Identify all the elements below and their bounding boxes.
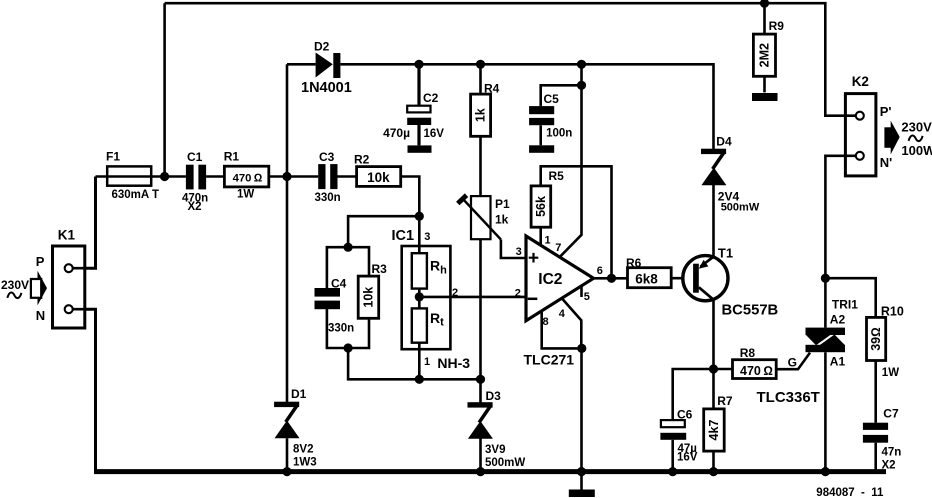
svg-text:1W: 1W [237,189,254,201]
capacitor C4 [315,288,341,309]
capacitor C3 [318,164,337,189]
svg-text:R5: R5 [549,169,565,183]
resistor R7 [704,409,725,451]
wire D3 leads [479,379,482,471]
svg-text:NH-3: NH-3 [437,355,470,371]
wire K2 N' riser [825,156,855,278]
svg-text:100W: 100W [901,143,932,158]
svg-text:470µ: 470µ [383,126,410,140]
svg-text:8V2: 8V2 [293,444,313,456]
svg-text:3V9: 3V9 [485,444,505,456]
wire C4 R3 top rail [327,247,369,288]
node F1 C1 [160,172,169,181]
svg-text:47n: 47n [882,447,902,459]
node bottom D3 [476,467,485,476]
svg-text:1: 1 [545,235,551,247]
node bottom ground [577,467,586,476]
node op-amp output [607,274,616,283]
wire op-amp pin 5 stub [580,286,583,297]
svg-text:2: 2 [452,287,458,299]
svg-text:P1: P1 [495,197,510,211]
svg-text:1W: 1W [882,367,899,379]
resistor R2 [357,167,401,187]
svg-text:470 Ω: 470 Ω [740,364,773,378]
svg-text:2: 2 [515,287,521,299]
zener diode D4 [701,149,726,186]
svg-text:TLC336T: TLC336T [757,389,820,406]
wire triac A2 [824,278,827,327]
node reference row D3 [476,375,485,384]
svg-text:K2: K2 [852,74,869,89]
capacitor C2 electrolytic [407,106,431,125]
mains arrow at K1 [31,271,47,306]
svg-text:C5: C5 [544,92,560,106]
svg-text:R1: R1 [224,150,240,164]
ground below R9 [752,93,778,101]
wire K1 P pin to mains row [73,177,96,269]
wire node to R8 [714,368,733,371]
wire R10 to C7 [874,361,877,472]
svg-text:C7: C7 [883,406,899,420]
svg-text:X2: X2 [188,201,202,213]
svg-text:R7: R7 [717,394,733,408]
triac TRI1 [806,328,846,353]
svg-text:330n: 330n [315,192,341,204]
node pin4 pin8 [577,344,586,353]
svg-text:TLC271: TLC271 [524,352,575,368]
wire bottom reference row [348,348,480,379]
svg-text:R10: R10 [881,305,904,319]
resistor R8 [733,360,777,379]
svg-text:56k: 56k [534,196,548,217]
svg-text:A2: A2 [830,312,846,326]
wire D2 branch riser x287 [286,64,289,471]
fuse F1 [107,166,151,185]
svg-text:G: G [788,356,797,370]
wire left riser from mains row to top rail [163,3,166,176]
svg-text:470 Ω: 470 Ω [233,173,263,185]
wire op-amp pin 8 [542,311,582,349]
svg-text:39Ω: 39Ω [869,327,883,351]
svg-text:N: N [36,308,45,323]
diode D2 [316,53,341,79]
node bottom D1 [282,467,291,476]
node R2 IC1 [415,212,424,221]
svg-text:100n: 100n [546,127,572,139]
wire K1 N pin to bottom rail [73,309,96,471]
wire D4 to T1 emitter [712,183,715,257]
capacitor C1 [186,165,206,190]
svg-text:1: 1 [424,356,430,368]
wire R4 P1 column [479,64,482,379]
svg-text:1N4001: 1N4001 [301,80,352,96]
node supply riser [577,60,586,69]
svg-text:630mA T: 630mA T [112,189,160,201]
svg-text:C3: C3 [319,150,335,164]
node R4 supply [476,60,485,69]
wire R9 leads [763,3,766,92]
zener diode D1 [274,402,299,439]
svg-text:C6: C6 [677,408,693,422]
svg-text:R2: R2 [354,152,370,166]
svg-text:R9: R9 [769,19,785,33]
wire R5 C5 feedback to output [541,166,612,278]
svg-text:C4: C4 [331,277,347,291]
wire R5 bottom to op-amp pin 1 [539,228,542,247]
svg-text:230V: 230V [901,119,932,134]
node bottom R7 [709,467,718,476]
node C4 R3 top [344,243,353,252]
svg-text:1W3: 1W3 [293,456,317,468]
capacitor C6 electrolytic [660,420,686,440]
svg-text:P: P [36,254,45,269]
svg-text:A1: A1 [830,355,846,369]
resistor R9 [753,34,775,76]
wire C6 bottom [671,440,674,472]
svg-text:D1: D1 [291,387,307,401]
svg-text:TRI1: TRI1 [832,298,858,312]
node bottom triac [821,467,830,476]
wire IC1 pin 2 to op-amp pin 2 [419,296,526,299]
svg-text:2M2: 2M2 [757,43,771,67]
ground at bottom rail [569,490,595,498]
transistor T1 [683,256,728,301]
svg-text:D4: D4 [716,135,732,149]
potentiometer P1 [458,195,501,239]
svg-text:7: 7 [555,242,561,254]
svg-text:R4: R4 [484,82,500,96]
connector K1 [53,246,85,328]
wire R6 to T1 base [671,277,693,280]
svg-text:4k7: 4k7 [707,420,721,441]
wire supply riser x581.5 to op-amp pin 7 [561,64,582,256]
node R1 C3 [282,172,291,181]
wire R2 to IC1 pin3 riser [401,177,420,254]
resistor R1 [224,166,268,187]
node Rh Rt [415,292,424,301]
svg-text:1k: 1k [495,213,509,227]
svg-text:4: 4 [559,308,566,320]
svg-text:K1: K1 [58,227,76,242]
wire P1 wiper to op-amp pin 3 [501,240,526,259]
svg-text:IC1: IC1 [392,228,415,244]
svg-text:P': P' [880,104,892,119]
wire R8 to triac gate [776,353,810,370]
svg-text:X2: X2 [882,460,896,472]
node C4 R3 bottom [344,343,353,352]
svg-text:8: 8 [543,316,549,328]
wire top rail to K2 P' [165,3,855,116]
resistor R4 [471,94,491,136]
wire op-amp output to R6 [594,277,629,280]
svg-text:10k: 10k [362,287,376,308]
svg-text:F1: F1 [106,150,120,164]
node C2 supply [414,60,423,69]
wire mains row segments [96,175,357,178]
node reference row IC1 [415,375,424,384]
resistor R5 [531,186,551,227]
resistor R6 [628,268,672,288]
ground below C5 [529,145,554,153]
node bottom C6 [668,467,677,476]
svg-text:500mW: 500mW [721,202,760,214]
svg-text:T1: T1 [718,246,733,261]
load arrow at K2 [884,121,899,155]
resistor Rt [412,308,427,342]
svg-text:5: 5 [584,291,590,303]
wire triac A1 to bottom rail [824,352,827,471]
node K2 N riser [821,274,830,283]
svg-text:D3: D3 [486,389,502,403]
svg-text:500mW: 500mW [485,457,525,469]
resistor Rh [412,253,427,288]
svg-text:230V: 230V [1,278,29,292]
IC1 box NH-3 [402,246,451,349]
wire C2 leads [417,64,420,145]
capacitor C5 [529,106,554,125]
wire T1 collector node [712,300,715,409]
svg-text:R3: R3 [372,262,388,276]
svg-text:984087 - 11: 984087 - 11 [816,487,884,498]
svg-text:6k8: 6k8 [635,271,658,286]
wire R7 bottom [712,451,715,472]
wire C5 branch [541,85,582,145]
svg-text:BC557B: BC557B [722,302,779,318]
svg-text:16V: 16V [677,452,698,464]
svg-text:C1: C1 [187,150,203,164]
svg-text:3: 3 [516,246,522,258]
wire branch to R10 [825,278,875,317]
svg-text:R8: R8 [740,346,756,360]
wire op-amp pin 4 down to ground [562,299,582,490]
node C5 branch [577,81,586,90]
capacitor C7 [863,423,888,443]
wire C4 R3 bottom rail [327,309,369,348]
wire IC1 internal Rh-Rt [418,289,421,309]
svg-text:R6: R6 [626,256,642,270]
svg-text:IC2: IC2 [538,271,562,288]
op-amp IC2 [526,236,594,321]
resistor R3 [358,276,379,318]
wire branch to C4 R3 [348,216,419,247]
zener diode D3 [468,402,493,439]
svg-text:1k: 1k [474,108,488,122]
wire node to C6 [673,369,714,420]
wire D2 row to D4 [287,64,714,149]
connector K2 [845,94,876,176]
svg-text:16V: 16V [424,128,445,140]
resistor R10 [867,317,886,360]
svg-text:3: 3 [424,231,430,243]
svg-text:D2: D2 [314,39,330,53]
ground below C2 [408,145,432,152]
wire bottom rail [94,469,886,474]
node R9 top [760,0,769,8]
svg-text:N': N' [880,155,892,170]
node T1 collector [709,364,718,373]
svg-text:10k: 10k [367,170,390,185]
svg-text:6: 6 [597,265,603,277]
svg-text:330n: 330n [328,323,354,335]
wire IC1 pin 1 [418,343,421,380]
svg-text:C2: C2 [423,91,439,105]
